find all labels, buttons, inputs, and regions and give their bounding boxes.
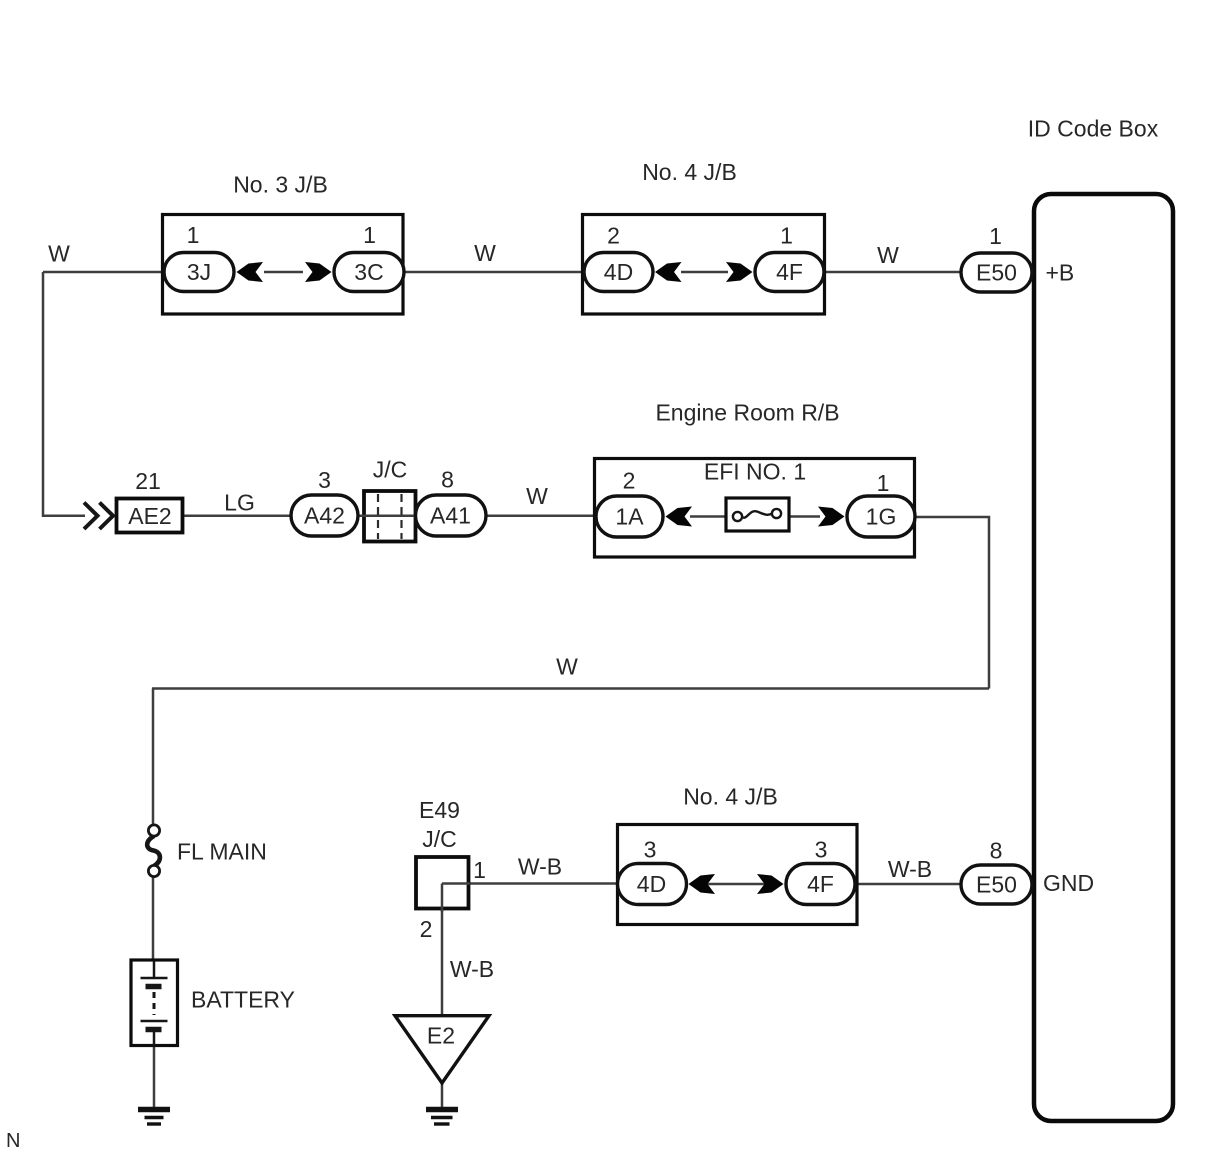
svg-text:4F: 4F xyxy=(807,871,834,897)
svg-text:4F: 4F xyxy=(776,259,803,285)
svg-text:A41: A41 xyxy=(430,503,471,529)
svg-text:8: 8 xyxy=(990,838,1003,864)
svg-text:8: 8 xyxy=(441,467,454,493)
svg-text:No. 4 J/B: No. 4 J/B xyxy=(642,159,737,185)
svg-text:4D: 4D xyxy=(637,871,666,897)
svg-text:1: 1 xyxy=(877,470,890,496)
svg-text:1G: 1G xyxy=(866,504,897,530)
svg-text:EFI NO. 1: EFI NO. 1 xyxy=(704,459,806,485)
svg-text:N: N xyxy=(6,1130,20,1152)
svg-text:E2: E2 xyxy=(427,1023,455,1049)
svg-text:1: 1 xyxy=(473,857,486,883)
svg-text:BATTERY: BATTERY xyxy=(191,987,295,1013)
svg-text:W: W xyxy=(556,654,578,680)
svg-text:J/C: J/C xyxy=(422,826,457,852)
svg-text:E50: E50 xyxy=(976,260,1017,286)
svg-text:W-B: W-B xyxy=(888,856,932,882)
svg-text:3: 3 xyxy=(644,837,657,863)
svg-text:21: 21 xyxy=(135,468,161,494)
svg-text:1: 1 xyxy=(780,223,793,249)
svg-text:W: W xyxy=(877,242,899,268)
svg-text:W-B: W-B xyxy=(450,956,494,982)
svg-text:2: 2 xyxy=(623,468,636,494)
svg-text:GND: GND xyxy=(1043,870,1094,896)
svg-text:J/C: J/C xyxy=(373,457,408,483)
svg-text:No. 3 J/B: No. 3 J/B xyxy=(233,172,328,198)
svg-text:1: 1 xyxy=(363,222,376,248)
svg-text:3C: 3C xyxy=(354,259,383,285)
svg-text:2: 2 xyxy=(420,916,433,942)
svg-text:3: 3 xyxy=(318,467,331,493)
svg-text:3: 3 xyxy=(815,837,828,863)
svg-text:3J: 3J xyxy=(187,259,211,285)
svg-text:2: 2 xyxy=(607,223,620,249)
svg-text:No. 4 J/B: No. 4 J/B xyxy=(683,784,778,810)
svg-text:1: 1 xyxy=(187,222,200,248)
svg-text:W: W xyxy=(48,241,70,267)
svg-text:AE2: AE2 xyxy=(128,503,171,529)
svg-text:LG: LG xyxy=(224,490,255,516)
svg-text:E50: E50 xyxy=(976,872,1017,898)
svg-text:W: W xyxy=(526,483,548,509)
svg-text:W-B: W-B xyxy=(518,854,562,880)
svg-text:4D: 4D xyxy=(604,259,633,285)
svg-text:+B: +B xyxy=(1046,260,1075,286)
svg-text:1A: 1A xyxy=(615,504,644,530)
svg-text:ID Code Box: ID Code Box xyxy=(1028,116,1159,142)
svg-text:1: 1 xyxy=(989,223,1002,249)
svg-text:W: W xyxy=(474,240,496,266)
svg-text:FL MAIN: FL MAIN xyxy=(177,839,267,865)
svg-text:Engine Room R/B: Engine Room R/B xyxy=(655,400,839,426)
svg-text:E49: E49 xyxy=(419,797,460,823)
svg-text:A42: A42 xyxy=(304,503,345,529)
